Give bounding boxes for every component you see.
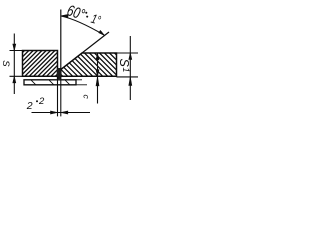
- S1 arrows: [129, 53, 132, 60]
- arc arrow at vertical line: [61, 14, 68, 17]
- gap arrows: [51, 111, 58, 114]
- backing strip below joint: [24, 80, 76, 85]
- backing strip hatching: [29, 78, 71, 86]
- svg-text:60°: 60°: [65, 2, 87, 23]
- arc arrow at bevel line: [99, 30, 105, 35]
- svg-text:c: c: [82, 95, 92, 100]
- svg-text:S1: S1: [117, 59, 131, 73]
- S dimension line: [13, 34, 15, 95]
- plus-minus as two dots: [85, 12, 87, 14]
- gap dimension line: [32, 112, 91, 114]
- right plate hatching (opposite direction): [40, 53, 138, 76]
- root blob where lines converge: [57, 68, 61, 79]
- S1 dimension extension lines (right): [117, 53, 139, 77]
- label 1 deg: [89, 13, 102, 29]
- bevel edge extension line: [82, 32, 109, 53]
- svg-text:S: S: [0, 60, 11, 67]
- strip edge overshoot stubs near c dimension: [76, 80, 87, 85]
- S1 dimension line: [129, 36, 131, 100]
- c arrows: [96, 53, 99, 60]
- left plate hatching: [0, 51, 81, 77]
- angle dimension arc: [61, 16, 104, 35]
- vertical leg of angle (extension of right plate root edge): [60, 10, 62, 70]
- right plate (thickness S1) outline with bevel and root face: [61, 53, 117, 76]
- svg-text:2: 2: [26, 100, 33, 112]
- left plate (thickness S) outline: [23, 51, 58, 77]
- gap extension lines: [58, 76, 61, 116]
- S dimension extension lines (left): [10, 51, 23, 77]
- svg-text:1°: 1°: [89, 13, 102, 29]
- S dimension arrows (outside): [13, 44, 16, 51]
- c dimension line: [97, 53, 99, 104]
- svg-text:2: 2: [38, 96, 45, 107]
- label 60 deg: [65, 2, 87, 23]
